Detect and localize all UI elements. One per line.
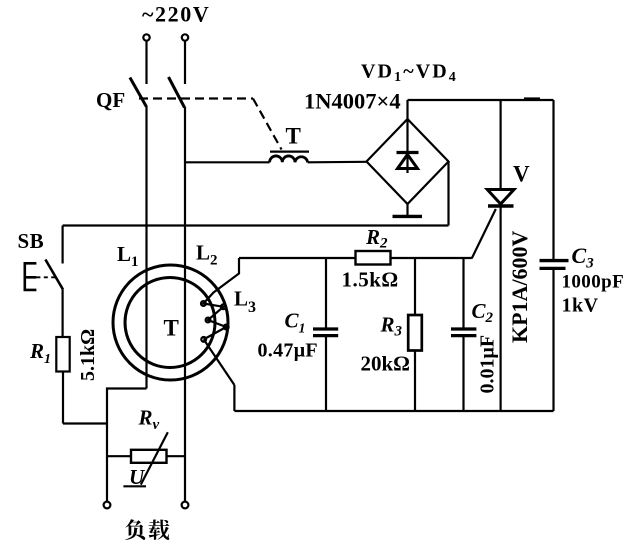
svg-text:1N4007×4: 1N4007×4	[304, 89, 401, 114]
svg-text:SB: SB	[18, 229, 45, 253]
svg-text:5.1kΩ: 5.1kΩ	[77, 329, 99, 381]
svg-text:T: T	[286, 124, 301, 149]
svg-text:U: U	[129, 465, 146, 489]
svg-text:~220V: ~220V	[142, 2, 210, 27]
svg-text:KP1A/600V: KP1A/600V	[507, 230, 532, 343]
svg-text:1.5kΩ: 1.5kΩ	[342, 268, 399, 292]
svg-text:V: V	[513, 162, 530, 187]
svg-text:1000pF: 1000pF	[562, 272, 625, 293]
svg-text:T: T	[164, 316, 179, 341]
svg-text:20kΩ: 20kΩ	[361, 352, 411, 376]
svg-text:VD1~VD4: VD1~VD4	[361, 61, 458, 86]
svg-text:0.47μF: 0.47μF	[258, 340, 318, 362]
svg-text:QF: QF	[96, 88, 125, 112]
svg-text:1kV: 1kV	[562, 295, 599, 317]
svg-text:0.01μF: 0.01μF	[477, 335, 499, 394]
